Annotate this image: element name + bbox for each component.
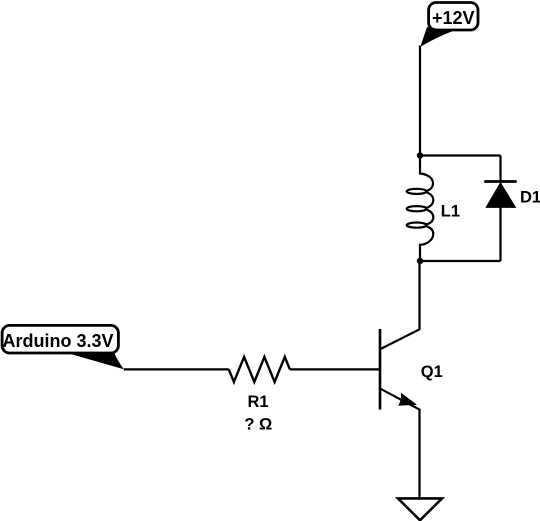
net flag +12V <box>420 3 478 47</box>
svg-text:Arduino 3.3V: Arduino 3.3V <box>2 331 113 351</box>
wire node A to diode top <box>420 154 501 156</box>
wire diode bottom vertical <box>499 207 501 261</box>
inductor L1 <box>407 156 434 262</box>
svg-text:Q1: Q1 <box>421 363 443 381</box>
diode D1 <box>484 182 516 208</box>
emitter arrow <box>398 393 417 406</box>
wire resistor to base bar <box>290 368 379 370</box>
svg-text:R1: R1 <box>247 393 268 411</box>
emitter diagonal <box>381 389 420 498</box>
node A (top junction) <box>417 152 423 158</box>
net flag Arduino 3.3V <box>2 325 124 369</box>
node B (bottom junction) <box>417 258 423 264</box>
wire diode top vertical <box>499 156 501 182</box>
wire diode bottom to node B <box>420 260 501 262</box>
svg-text:+12V: +12V <box>432 8 475 28</box>
svg-text:? Ω: ? Ω <box>244 415 272 433</box>
wire base from flag to resistor <box>124 368 229 370</box>
wire collector vertical + diagonal <box>381 261 420 349</box>
wire +12V to node A <box>419 46 421 156</box>
svg-text:D1: D1 <box>520 188 540 206</box>
resistor R1 zigzag <box>229 357 290 382</box>
ground <box>398 498 442 520</box>
svg-text:L1: L1 <box>441 202 460 220</box>
transistor Q1 base bar <box>379 329 382 410</box>
